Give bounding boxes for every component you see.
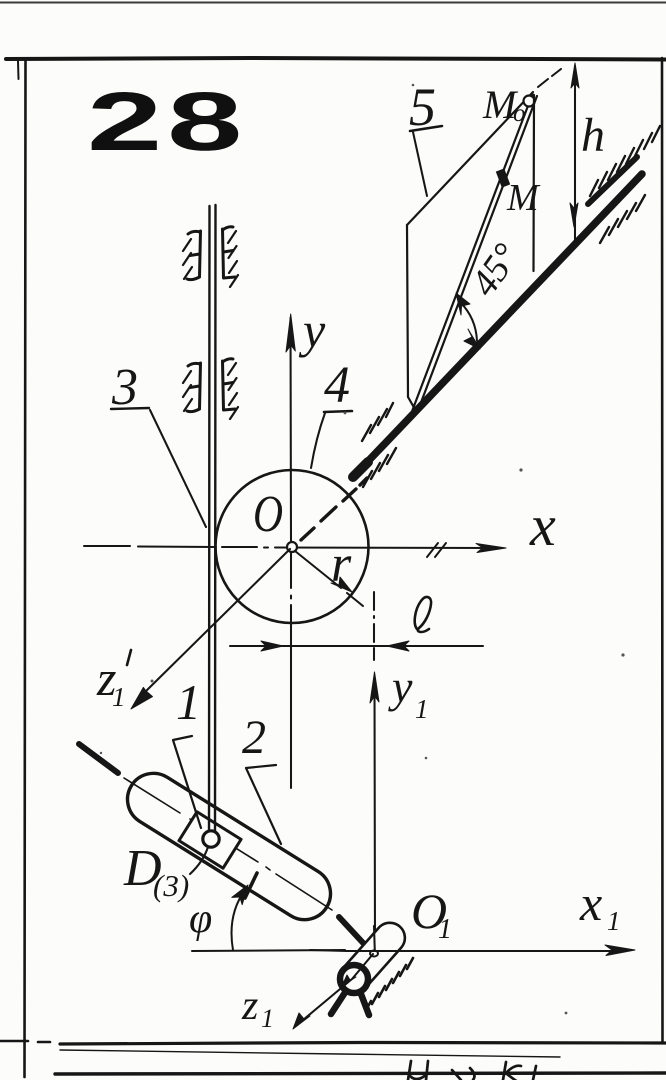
point O1 dot [370, 951, 378, 957]
frame right vertical line [661, 58, 664, 1043]
incline main line [353, 174, 642, 477]
upper rail hatches [590, 126, 660, 196]
incline hatches lower left below [363, 448, 396, 487]
svg-text:r: r [331, 536, 352, 593]
label 1 [173, 674, 201, 828]
dash-dot above apex [538, 69, 561, 87]
svg-text:1: 1 [176, 674, 201, 730]
svg-text:φ: φ [189, 896, 212, 942]
small tick inside ring [342, 975, 356, 986]
rod guide lower right bracket [223, 359, 239, 419]
rod guide lower left bracket [183, 363, 201, 412]
svg-text:2: 2 [242, 711, 266, 764]
y1 axis overlay on bearing [373, 926, 376, 951]
svg-text:28: 28 [87, 75, 247, 168]
45 angle arc [460, 302, 477, 341]
svg-text:z: z [241, 983, 258, 1029]
svg-text:y: y [388, 661, 413, 712]
svg-text:1: 1 [438, 914, 452, 945]
y1 axis [373, 680, 376, 952]
frame top hairline [0, 2, 666, 4]
x1 axis [310, 950, 626, 951]
slider pin [203, 831, 219, 847]
upper guide rail [588, 157, 637, 204]
label y1 [388, 661, 429, 724]
svg-text:1: 1 [261, 1004, 274, 1033]
dashed radius to contact [301, 478, 367, 540]
label l (script ell) [415, 597, 431, 632]
frame bottom line 2 [55, 1073, 666, 1074]
label M0 [482, 82, 526, 127]
svg-text:45°: 45° [463, 236, 528, 304]
label x1 [579, 875, 621, 936]
y1 axis dash-dot upper [373, 592, 375, 660]
point M marker [500, 170, 506, 186]
bearing cylinder at O1 [333, 917, 411, 1000]
svg-text:x: x [529, 493, 556, 558]
plate 5 bottom corner [408, 397, 416, 411]
frame bottom dash left [0, 1041, 50, 1042]
numeral 28 [87, 75, 247, 168]
label 3 [111, 359, 206, 527]
label O1 [411, 883, 452, 945]
svg-text:M: M [506, 177, 541, 219]
l dimension line [230, 645, 483, 647]
svg-text:4: 4 [324, 357, 350, 414]
plate 5 top edge [407, 92, 533, 225]
label 5 [409, 77, 442, 196]
frame left tick [17, 61, 20, 79]
rod M0M double line [413, 94, 533, 410]
frame top main line [6, 58, 666, 60]
point M0 circle [524, 96, 535, 107]
bearing end bold ring [340, 965, 368, 993]
frame bottom line 1 [60, 1043, 666, 1045]
frame left vertical line [25, 60, 26, 1077]
slider D rectangle [179, 812, 241, 868]
svg-text:1: 1 [607, 906, 621, 936]
rod guide upper right bracket [223, 227, 239, 287]
svg-text:x: x [579, 875, 602, 931]
capsule body 2 [118, 764, 341, 930]
phi reference line [192, 950, 345, 951]
frame bottom thin sloping line [60, 1050, 560, 1057]
rod guide upper left bracket [183, 231, 201, 280]
rod 3 (vertical double line) [208, 206, 211, 834]
svg-text:y: y [298, 302, 326, 358]
x axis [84, 546, 497, 548]
r arrow [295, 551, 363, 606]
leader D to pin [190, 847, 208, 874]
bearing legs [331, 991, 346, 1014]
label 4 [311, 357, 352, 468]
incline hatches upper right below [600, 195, 645, 243]
phi arc [232, 890, 246, 950]
disk 4 circle [216, 470, 369, 623]
bearing hatches [366, 958, 413, 1010]
incline lower blob [353, 462, 368, 477]
label D(3) [123, 840, 189, 903]
z1prime axis arrow [143, 549, 290, 694]
label 2 [242, 711, 281, 844]
disk center pin [287, 542, 297, 552]
label z1prime [96, 650, 126, 712]
svg-text:h: h [581, 109, 605, 162]
incline hatches lower left above [362, 403, 393, 441]
svg-text:o: o [513, 100, 526, 127]
svg-text:(3): (3) [153, 868, 189, 903]
svg-text:1: 1 [112, 682, 126, 712]
label z1 bottom [241, 983, 274, 1033]
h dimension line [574, 66, 576, 243]
y axis [289, 318, 292, 788]
handwriting fragment bottom [408, 1061, 536, 1080]
45 degree label [463, 236, 528, 304]
plate 5 left edge [407, 225, 408, 397]
scan specks [100, 84, 625, 1015]
capsule axis dash-dot [124, 778, 332, 910]
svg-text:O: O [253, 486, 283, 543]
z1 axis line [297, 954, 373, 1025]
phi tick on capsule edge [245, 873, 257, 898]
vertical from apex [532, 95, 535, 271]
body rod thick (outside capsule) [79, 744, 118, 773]
x axis hatch ticks [427, 543, 446, 557]
svg-text:1: 1 [415, 694, 429, 724]
